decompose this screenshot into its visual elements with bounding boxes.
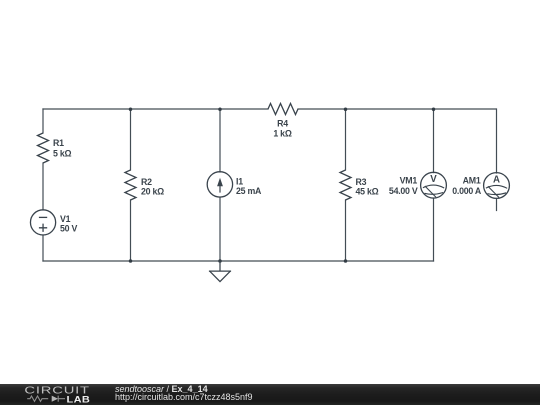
- wire I1 branch upper: [219, 109, 221, 172]
- wire top right segment: [298, 108, 496, 110]
- resistor R3: [340, 170, 351, 200]
- wire left branch upper: [42, 109, 44, 133]
- junction top R3: [344, 108, 348, 112]
- junction top R2: [129, 108, 133, 112]
- svg-text:20 kΩ: 20 kΩ: [141, 186, 164, 196]
- svg-text:LAB: LAB: [66, 395, 90, 405]
- junction top I1: [218, 108, 222, 112]
- wire right vertical to ammeter: [496, 109, 498, 173]
- svg-text:25 mA: 25 mA: [236, 186, 262, 196]
- svg-text:54.00 V: 54.00 V: [389, 186, 418, 196]
- svg-text:45 kΩ: 45 kΩ: [356, 186, 379, 196]
- voltage source V1: [30, 210, 55, 235]
- wire left branch lower: [42, 235, 44, 261]
- svg-text:R1: R1: [53, 138, 64, 148]
- svg-text:I1: I1: [236, 177, 243, 187]
- wire R2 branch upper: [130, 109, 132, 170]
- wire bottom: [43, 260, 434, 262]
- junction bottom R2: [129, 259, 133, 263]
- svg-text:5 kΩ: 5 kΩ: [53, 149, 71, 159]
- svg-text:50 V: 50 V: [60, 224, 77, 234]
- resistor R2: [125, 170, 136, 200]
- svg-text:1 kΩ: 1 kΩ: [273, 128, 291, 138]
- svg-text:R2: R2: [141, 177, 152, 187]
- svg-text:V: V: [430, 174, 437, 185]
- svg-text:0.000 A: 0.000 A: [452, 186, 482, 196]
- svg-text:R3: R3: [356, 177, 367, 187]
- svg-text:V1: V1: [60, 214, 71, 224]
- wire R3 branch upper: [345, 109, 347, 170]
- voltmeter VM1: [421, 172, 447, 198]
- wire VM1 branch upper: [433, 109, 435, 173]
- current source I1: [207, 172, 232, 197]
- resistor R1: [38, 133, 49, 163]
- wire R2 branch lower: [130, 200, 132, 261]
- junction bottom R3: [344, 259, 348, 263]
- junction top VM1: [432, 108, 436, 112]
- svg-text:R4: R4: [277, 118, 288, 128]
- wire left branch middle: [42, 163, 44, 210]
- svg-text:AM1: AM1: [463, 176, 481, 186]
- junction bottom I1: [218, 259, 222, 263]
- svg-text:A: A: [493, 175, 500, 186]
- wire R3 branch lower: [345, 200, 347, 261]
- wire VM1 branch lower: [433, 198, 435, 261]
- svg-text:VM1: VM1: [400, 176, 418, 186]
- wire I1 branch lower: [219, 197, 221, 261]
- resistor R4: [268, 104, 298, 115]
- wire top left segment: [43, 108, 268, 110]
- ammeter AM1: [484, 173, 510, 199]
- wire AM1 stub below: [496, 199, 498, 211]
- ground: [209, 261, 231, 282]
